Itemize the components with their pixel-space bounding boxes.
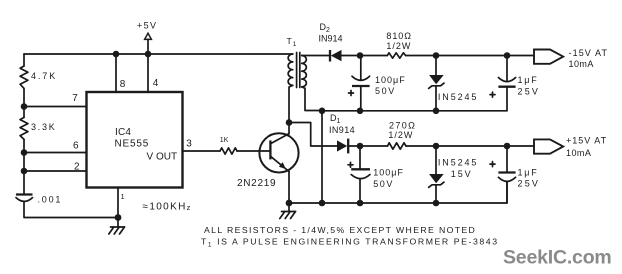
wire secondary bottom [302,87,322,111]
svg-text:4: 4 [153,78,159,89]
node emitter junction [286,200,293,207]
node junction C3 top [357,143,364,150]
svg-text:NE555: NE555 [115,138,150,149]
svg-text:2N2219: 2N2219 [237,178,276,189]
node junction C3 bottom [357,200,364,207]
wire pin 8 [115,54,117,92]
svg-text:25V: 25V [518,86,541,96]
secondary winding [302,56,307,87]
svg-text:50V: 50V [375,86,396,96]
svg-text:100μF: 100μF [373,168,404,178]
wire left rail mid [23,88,25,117]
svg-text:3: 3 [186,138,192,149]
wire primary bottom [289,85,293,122]
wire ground rail [289,182,507,204]
svg-text:2: 2 [74,162,80,173]
wire pin 7 [24,106,87,108]
primary winding [288,54,293,85]
svg-text:ALL RESISTORS - 1/4W,5% EXCEPT: ALL RESISTORS - 1/4W,5% EXCEPT WHERE NOT… [204,225,476,235]
wire pin 2 [24,170,87,172]
svg-text:1μF: 1μF [518,167,539,177]
node junction pin6 [21,149,28,156]
svg-text:1: 1 [121,192,125,201]
capacitor C5 1uF 25V [490,146,516,203]
wire collector to D1 [289,123,337,147]
wire left rail lower [23,139,25,194]
svg-text:3.3K: 3.3K [31,122,57,132]
node junction return [319,200,326,207]
svg-text:.001: .001 [38,194,63,204]
svg-text:25V: 25V [518,179,541,189]
diode D1 1N914 [337,139,348,154]
wire collector [288,123,290,134]
wire base [237,150,270,152]
ground GND2 [280,203,296,219]
node junction pin2 [21,168,28,175]
svg-text:270Ω: 270Ω [389,121,416,131]
node junction C2 bottom [357,108,364,115]
svg-text:1K: 1K [220,137,229,144]
node junction ground [115,214,122,221]
core [296,53,298,88]
wire +15V rail [406,145,534,147]
svg-text:IN5245: IN5245 [438,92,478,102]
node junction zener2 top [433,143,440,150]
svg-text:IC4: IC4 [115,127,131,138]
wire -15V rail [406,55,534,57]
wire pin 3 out [183,150,221,152]
node junction zener1 top [433,52,440,59]
+5V supply arrow [145,33,152,39]
node junction C5 top [504,143,511,150]
svg-text:1μF: 1μF [518,75,539,85]
capacitor C2 100uF 50V [349,56,370,111]
wire return vertical [321,111,323,204]
node collector junction [286,119,293,126]
svg-text:+15V AT: +15V AT [566,136,607,146]
wire secondary top to D2 [302,55,330,57]
diode zener Z2 1N5245 [429,146,444,203]
svg-text:V OUT: V OUT [147,152,178,163]
resistor R1 4.7K [20,66,28,88]
svg-text:1/2W: 1/2W [388,130,413,140]
svg-text:IN914: IN914 [319,33,343,43]
svg-text:7: 7 [72,93,78,104]
wire pin 6 [24,152,87,154]
output -15V arrow [534,50,563,64]
wire D1 to resistor [348,145,387,147]
node junction pin4 [145,51,152,58]
wire pin 4 [147,54,149,92]
svg-text:IN5245: IN5245 [438,158,478,168]
resistor R5 270ohm [388,143,407,149]
wire cap bottom [24,201,118,217]
node junction zener2 bottom [433,200,440,207]
svg-text:10mA: 10mA [569,59,594,69]
node junction pin8 [113,51,120,58]
op-amp U1 NE555 box [87,92,183,188]
svg-text:4.7K: 4.7K [31,71,57,81]
wire -15V bottom rail [322,110,507,112]
resistor R4 810ohm [387,53,405,58]
svg-text:50V: 50V [373,179,394,189]
node junction zener1 bottom [433,108,440,115]
transistor Q1 2N2219 [259,133,298,172]
capacitor C4 1uF 25V [490,56,516,111]
node junction C4 top [504,52,511,59]
svg-text:SeekIC.com: SeekIC.com [503,247,612,269]
svg-text:+5V: +5V [137,21,157,31]
wire +5V top rail [24,53,293,55]
svg-text:1/2W: 1/2W [386,41,411,51]
node junction C2 top [357,52,364,59]
resistor R3 1K [220,148,237,154]
wire pin 1 [117,188,119,218]
wire emitter [288,172,290,204]
svg-text:10mA: 10mA [566,148,591,158]
transformer T1 [288,53,306,88]
svg-text:100μF: 100μF [375,75,406,85]
capacitor C3 100uF 50V [348,146,370,203]
output +15V arrow [534,139,563,153]
node junction pin7 [21,103,28,110]
svg-text:15V: 15V [451,169,473,179]
svg-text:≈100KHz: ≈100KHz [143,201,192,212]
wire left rail upper [23,54,25,66]
svg-text:6: 6 [73,141,79,152]
capacitor C1 .001 [16,195,33,202]
node junction bottom left [319,108,326,115]
svg-text:810Ω: 810Ω [386,31,412,41]
diode zener Z1 1N5245 [429,56,444,111]
diode D2 1N914 [330,50,342,62]
wire D2 to resistor [342,55,388,57]
svg-text:-15V AT: -15V AT [569,48,609,58]
resistor R2 3.3K [20,117,28,139]
svg-text:IN914: IN914 [329,125,355,135]
ground GND1 [109,218,125,234]
svg-text:8: 8 [120,79,126,90]
